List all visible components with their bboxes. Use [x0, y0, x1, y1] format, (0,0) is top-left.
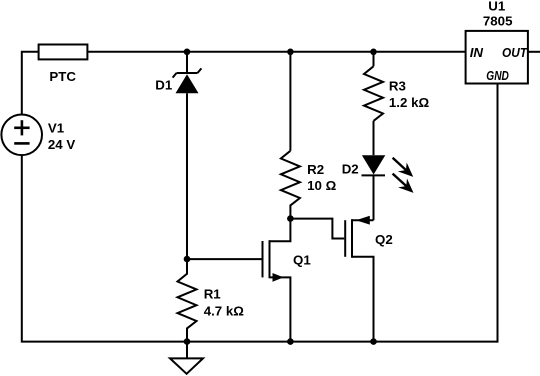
svg-text:4.7 kΩ: 4.7 kΩ — [204, 303, 245, 318]
svg-text:1.2 kΩ: 1.2 kΩ — [389, 95, 430, 110]
wire R2 branch — [289, 52, 291, 151]
wire R3 to LED — [373, 121, 375, 155]
resistor R2 — [281, 151, 337, 219]
wire Q2 gate route — [290, 219, 344, 239]
svg-text:PTC: PTC — [49, 69, 76, 84]
svg-text:R3: R3 — [389, 79, 406, 94]
wire top rail — [22, 52, 466, 115]
svg-text:R1: R1 — [204, 287, 222, 302]
wire R3 branch top — [373, 52, 375, 67]
junction dot top rail R2 — [287, 49, 294, 56]
svg-text:10 Ω: 10 Ω — [307, 178, 336, 193]
junction dot top rail D1 — [184, 49, 191, 56]
wire D1 branch top — [186, 52, 188, 73]
wire OUT pin — [528, 51, 540, 53]
resistor R1 — [178, 259, 245, 342]
junction dot bottom rail Q2 — [370, 338, 377, 345]
svg-text:D2: D2 — [342, 161, 359, 176]
wire GND pin — [497, 84, 499, 343]
wire D1 to gate node — [186, 93, 188, 259]
regulator U1 — [466, 0, 529, 84]
svg-text:Q2: Q2 — [375, 232, 393, 247]
svg-text:U1: U1 — [488, 0, 506, 14]
wire gate of Q1 — [187, 258, 262, 260]
n-channel MOSFET Q1 — [263, 219, 312, 342]
svg-text:Q1: Q1 — [293, 253, 311, 268]
ground — [170, 342, 203, 374]
svg-text:GND: GND — [486, 68, 509, 83]
voltage source V1 — [1, 115, 75, 156]
resistor R3 — [364, 66, 429, 121]
junction dot gate node — [184, 256, 191, 263]
svg-text:D1: D1 — [155, 77, 173, 92]
zener diode D1 — [155, 68, 201, 93]
wire LED to Q2 drain — [373, 175, 375, 220]
junction dot Q1 drain node — [287, 215, 294, 222]
LED D2 — [342, 155, 414, 193]
svg-text:R2: R2 — [307, 162, 324, 177]
wire left rail lower and bottom rail — [22, 155, 498, 341]
svg-text:V1: V1 — [48, 121, 65, 136]
junction dot top rail R3 — [370, 49, 377, 56]
svg-text:OUT: OUT — [502, 45, 529, 60]
PTC thermistor — [39, 45, 88, 84]
p-channel MOSFET Q2 — [345, 216, 393, 342]
junction dot bottom rail R1 — [184, 338, 191, 345]
svg-text:7805: 7805 — [483, 13, 513, 28]
junction dot bottom rail Q1 — [287, 338, 294, 345]
svg-text:24 V: 24 V — [48, 137, 75, 152]
svg-text:IN: IN — [470, 45, 484, 60]
